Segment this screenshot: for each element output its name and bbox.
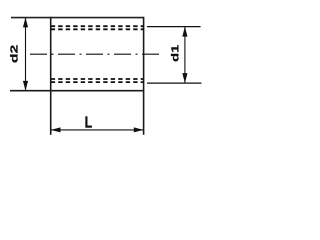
hidden thread line top outer (51, 25, 144, 27)
arrow d1 top (182, 27, 187, 37)
extension line d1 bottom (147, 82, 202, 84)
label d1 (171, 45, 178, 61)
label L (86, 116, 92, 127)
arrow L right (134, 127, 144, 132)
arrow d2 bottom (23, 81, 28, 91)
dimension line d1 (184, 27, 186, 84)
body outline left edge with L extension line (50, 17, 52, 135)
arrow d2 top (23, 18, 28, 28)
arrow d1 bottom (182, 73, 187, 83)
body outline bottom edge with d2 extension line (10, 90, 144, 92)
arrow L left (51, 127, 61, 132)
label d2 (10, 45, 17, 62)
hidden thread line bottom outer (51, 81, 144, 83)
hidden thread line bottom inner (51, 78, 144, 80)
dimension line d2 (25, 18, 27, 91)
hidden thread line top inner (51, 28, 144, 30)
extension line d1 top (147, 26, 201, 28)
body outline right edge with L extension line (143, 17, 145, 135)
centerline (30, 53, 161, 55)
body outline top edge with d2 extension line (11, 17, 144, 19)
dimension line L (51, 129, 144, 131)
